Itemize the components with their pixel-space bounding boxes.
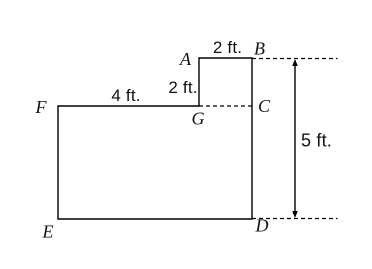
svg-text:G: G (192, 109, 205, 129)
svg-text:2 ft.: 2 ft. (213, 38, 242, 57)
svg-text:F: F (35, 97, 48, 117)
svg-text:5 ft.: 5 ft. (301, 131, 332, 151)
svg-text:B: B (254, 39, 265, 59)
svg-text:4 ft.: 4 ft. (111, 86, 140, 105)
svg-text:D: D (255, 216, 269, 236)
svg-text:E: E (42, 222, 54, 242)
svg-text:C: C (258, 96, 271, 116)
svg-text:2 ft.: 2 ft. (168, 78, 197, 97)
svg-text:A: A (179, 49, 192, 69)
